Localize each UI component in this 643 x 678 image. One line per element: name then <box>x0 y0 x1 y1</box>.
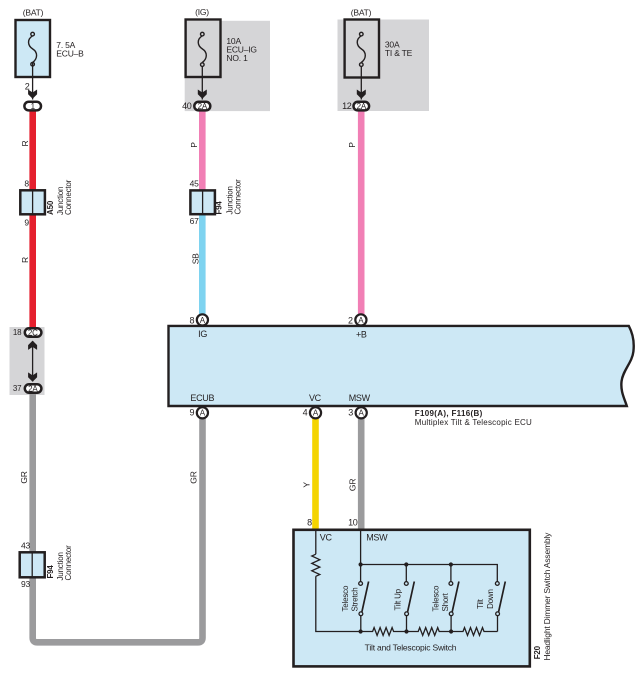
resistor between Telesco Short and Tilt Down <box>451 628 497 636</box>
wire red R from fuse ECU-B to 2C <box>29 111 36 328</box>
svg-text:18: 18 <box>13 328 22 337</box>
svg-text:Short: Short <box>441 592 450 611</box>
svg-text:(IG): (IG) <box>195 7 209 17</box>
fuse ECU-IG symbol <box>198 32 206 66</box>
svg-text:2A: 2A <box>357 102 367 111</box>
svg-text:NO. 1: NO. 1 <box>226 53 248 63</box>
gray box BAT 30A fuse background <box>338 20 430 112</box>
svg-text:Y: Y <box>301 482 311 488</box>
svg-text:Connector: Connector <box>64 545 73 581</box>
svg-text:A: A <box>200 409 206 418</box>
svg-text:SB: SB <box>190 253 200 264</box>
svg-text:2A: 2A <box>198 102 208 111</box>
wire VC drop inside switch box <box>315 531 317 554</box>
svg-text:Tilt and Telescopic Switch: Tilt and Telescopic Switch <box>365 643 457 653</box>
svg-text:Tilt Up: Tilt Up <box>394 588 403 610</box>
resistor on VC branch <box>312 554 320 576</box>
wire from fuse to 2A <box>201 66 203 100</box>
junction connector F94 lower <box>20 552 45 577</box>
svg-text:GR: GR <box>19 471 29 483</box>
svg-text:Down: Down <box>486 589 495 609</box>
resistor between Telesco Stretch and Tilt Up <box>361 628 407 636</box>
svg-text:93: 93 <box>21 579 31 589</box>
svg-text:(BAT): (BAT) <box>23 7 44 17</box>
svg-text:Headlight Dimmer Switch Assemb: Headlight Dimmer Switch Assembly <box>542 532 552 661</box>
wire from fuse to 2A right <box>360 66 362 100</box>
bottom bus junction dots <box>359 629 454 633</box>
svg-text:37: 37 <box>13 384 22 393</box>
fuse TI&TE symbol <box>357 32 365 66</box>
connector oval 2A (IG) <box>194 102 210 111</box>
svg-text:Telesco: Telesco <box>432 585 441 611</box>
svg-text:Connector: Connector <box>64 179 73 215</box>
connector oval 1 <box>24 102 41 111</box>
ECU pin 8 circle <box>197 314 208 325</box>
svg-text:(BAT): (BAT) <box>351 7 372 17</box>
wire from fuse to connector 1 <box>32 63 34 100</box>
headlight dimmer switch assembly box <box>294 530 530 667</box>
svg-text:ECUB: ECUB <box>190 393 214 403</box>
gray box 2C/2A connector background <box>10 327 45 395</box>
top bus <box>361 565 498 582</box>
ECU box F109/F116 <box>169 326 634 406</box>
fuse ECU-B symbol <box>29 32 37 66</box>
svg-text:F20: F20 <box>533 645 542 659</box>
svg-text:45: 45 <box>190 178 200 188</box>
ECU pin 4 circle <box>310 407 321 418</box>
svg-text:1: 1 <box>31 102 36 111</box>
bus junction dots <box>359 562 454 566</box>
fuse ECU-B box <box>16 20 51 77</box>
svg-text:40: 40 <box>182 101 192 111</box>
svg-text:Telesco: Telesco <box>341 585 350 611</box>
fuse ECU-IG box <box>186 20 221 78</box>
MSW drop to bus <box>360 531 362 565</box>
svg-text:A50: A50 <box>46 200 55 215</box>
switch Telesco Stretch <box>359 565 369 632</box>
svg-text:VC: VC <box>309 393 322 403</box>
svg-text:4: 4 <box>303 408 308 418</box>
svg-text:F94: F94 <box>215 201 224 215</box>
svg-text:9: 9 <box>189 408 194 418</box>
svg-text:2A: 2A <box>28 384 38 393</box>
wire skyblue SB from F94 to ECU pin 8 <box>199 214 206 315</box>
junction connector F94 upper <box>190 190 215 214</box>
switch Telesco Short <box>449 565 459 632</box>
connector oval 2A (BAT right) <box>354 102 370 111</box>
svg-text:2: 2 <box>25 82 30 92</box>
resistor between Tilt Up and Telesco Short <box>407 628 452 636</box>
svg-text:VC: VC <box>320 533 333 543</box>
svg-text:67: 67 <box>190 216 200 226</box>
svg-text:Connector: Connector <box>234 179 243 215</box>
svg-text:8: 8 <box>24 178 29 188</box>
svg-text:2: 2 <box>348 315 353 325</box>
svg-text:3: 3 <box>348 408 353 418</box>
ECU pin 2 circle <box>355 314 366 325</box>
ECU pin 9 circle <box>197 407 208 418</box>
svg-text:P: P <box>189 142 199 148</box>
svg-text:10: 10 <box>348 518 358 528</box>
svg-text:MSW: MSW <box>366 533 388 543</box>
wire VC branch to bottom bus <box>316 576 361 631</box>
wire gray GR U-path from 2A pin37 to ECU pin 9 <box>33 394 203 642</box>
svg-text:Stretch: Stretch <box>351 588 360 612</box>
switch Tilt Up <box>404 565 414 632</box>
svg-text:8: 8 <box>307 518 312 528</box>
svg-text:A: A <box>359 409 365 418</box>
svg-text:A: A <box>313 409 319 418</box>
svg-text:F109(A), F116(B): F109(A), F116(B) <box>415 409 483 418</box>
junction connector A50 <box>20 190 45 214</box>
svg-text:R: R <box>20 257 30 263</box>
svg-text:A: A <box>200 316 206 325</box>
arrow into 2A <box>198 90 207 99</box>
svg-text:GR: GR <box>189 471 199 483</box>
connector oval 2A <box>25 384 42 393</box>
svg-text:+B: +B <box>356 329 367 339</box>
svg-text:Tilt: Tilt <box>476 598 485 609</box>
ECU pin 3 circle <box>356 407 367 418</box>
gray box IG fuse background <box>185 21 270 111</box>
svg-text:IG: IG <box>198 329 207 339</box>
svg-text:A: A <box>358 316 364 325</box>
arrow into connector 1 <box>28 90 37 99</box>
switch Tilt Down <box>495 582 505 632</box>
svg-text:12: 12 <box>342 101 352 111</box>
svg-text:ECU–B: ECU–B <box>56 49 84 59</box>
wire pink P from TI&TE fuse to ECU pin 2 <box>358 111 365 315</box>
svg-text:R: R <box>20 140 30 146</box>
connector oval 2C <box>25 328 42 337</box>
wire gray GR from ECU pin 3 to switch MSW <box>358 418 365 531</box>
svg-text:P: P <box>347 142 357 148</box>
svg-text:43: 43 <box>21 541 31 551</box>
svg-text:Multiplex Tilt & Telescopic EC: Multiplex Tilt & Telescopic ECU <box>415 418 532 427</box>
wire pink P from ECU-IG fuse to F94 <box>199 111 206 191</box>
fuse TI&TE box <box>345 20 379 78</box>
svg-text:2C: 2C <box>28 328 38 337</box>
wire yellow Y from ECU pin 4 to switch VC <box>312 418 319 531</box>
svg-text:GR: GR <box>348 479 358 491</box>
svg-text:9: 9 <box>24 218 29 228</box>
svg-text:8: 8 <box>189 315 194 325</box>
arrow into 2A right <box>357 90 366 99</box>
svg-text:TI & TE: TI & TE <box>385 48 413 58</box>
double arrow between 2C and 2A <box>28 341 37 382</box>
svg-text:F94: F94 <box>46 565 55 579</box>
svg-text:MSW: MSW <box>349 393 371 403</box>
